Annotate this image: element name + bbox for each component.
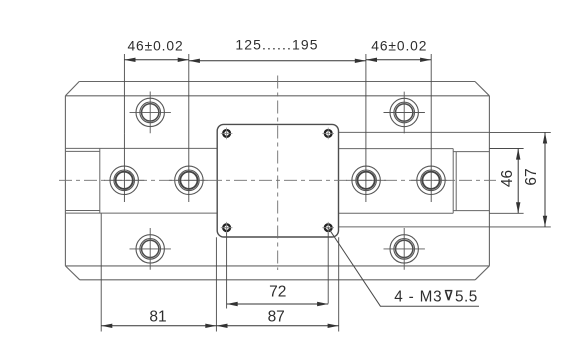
body internal line y=148 right [339,148,454,150]
dimension line 72 bottom [227,303,329,305]
plate screw hole bottom-left M3 [221,222,233,234]
svg-text:81: 81 [149,309,166,326]
left tab [65,148,99,213]
extension lines bottom dimensions [101,214,339,332]
body internal line y=148 left [65,147,217,149]
plate screw hole bottom-right M3 [322,222,334,234]
extension lines right dimensions [489,132,550,227]
dimension line 46 top-left [124,59,188,61]
mounting hole right-bottom [384,228,425,270]
horizontal centerline [59,179,496,181]
dimension line 87 bottom [216,325,338,327]
annotation text 4 - M3 depth 5.5 [394,288,477,305]
dimension line 81 bottom [101,325,216,327]
svg-text:46: 46 [499,170,516,187]
body internal line y=213 left [65,212,217,214]
dimension line 46 right side vertical [517,149,519,214]
svg-text:5.5: 5.5 [455,288,478,305]
svg-text:125......195: 125......195 [235,37,318,53]
dimension line 67 right side vertical [544,132,546,227]
extension lines top dimensions [124,54,431,202]
svg-text:4 - M3: 4 - M3 [394,288,442,305]
mounting hole left-mid-1 [110,166,138,194]
center plate [217,124,338,237]
mounting hole right-mid-2 [417,166,445,194]
dimension line 125-195 top-middle [189,60,366,62]
mounting hole left-bottom [130,228,171,270]
hole crosshair solid segments on centerline [104,179,451,181]
body outline top face [65,82,489,96]
rail edge line y=132 right [339,131,490,133]
vertical centerline [277,76,279,271]
body internal line y=213 right [339,212,454,214]
mounting hole right-mid-1 [352,166,380,194]
rail edge line y=227 right [339,226,490,228]
right tab [453,149,489,214]
svg-text:67: 67 [523,168,540,185]
dimension line 46 top-right [366,59,431,61]
svg-text:46±0.02: 46±0.02 [371,39,427,54]
plate screw hole top-right M3 [322,128,334,140]
mounting hole left-top [130,92,171,134]
body right edge [488,96,490,266]
body outline bottom face [65,266,489,280]
plate screw hole top-left M3 [221,128,233,140]
mounting hole left-mid-2 [175,166,203,194]
mounting hole right-top [384,92,425,134]
svg-text:72: 72 [269,284,286,301]
body left edge [64,96,66,266]
svg-text:46±0.02: 46±0.02 [127,39,183,54]
leader line 4-M3 [328,228,479,307]
svg-text:87: 87 [268,309,285,326]
